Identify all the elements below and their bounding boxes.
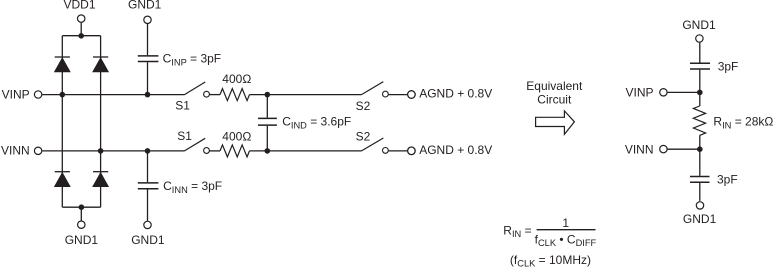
capacitor CINP — [138, 56, 159, 62]
wire RIN bottom to VINN node — [699, 135, 701, 149]
diode top-right (VINN to VDD1) — [93, 57, 108, 72]
svg-text:400Ω: 400Ω — [222, 130, 251, 144]
VDD1 label — [63, 0, 95, 12]
node VINN / CINN junction — [145, 148, 151, 154]
switch S1 (top) contact — [204, 91, 210, 97]
svg-text:S1: S1 — [177, 129, 192, 143]
node VDD1 bus junction — [78, 33, 84, 39]
wire cap to VINP node (right) — [699, 70, 701, 93]
wire VINP terminal to node (right) — [668, 91, 700, 93]
svg-text:VINP: VINP — [2, 88, 30, 102]
node VINP (right) — [697, 90, 703, 96]
svg-text:400Ω: 400Ω — [222, 72, 251, 86]
diode bottom-left (GND1 to VINP) — [55, 172, 70, 187]
svg-text:VINN: VINN — [1, 144, 30, 158]
wire top diode bus — [62, 35, 100, 37]
wire CINP to VINP rail — [147, 62, 149, 94]
GND1 label (diode bridge) — [65, 233, 99, 247]
GND1 terminal (CINP branch) — [144, 16, 151, 23]
S2 label (bottom) — [356, 130, 371, 144]
GND1 terminal (right top) — [696, 35, 703, 42]
switch S2 (top) blade — [362, 82, 384, 95]
equivalent-circuit block arrow — [536, 111, 575, 134]
AGND + 0.8V label (top) — [419, 86, 492, 100]
GND1 label (right top) — [682, 18, 716, 32]
svg-text:AGND + 0.8V: AGND + 0.8V — [419, 143, 492, 157]
resistor RIN — [693, 106, 705, 135]
svg-text:VDD1: VDD1 — [63, 0, 95, 12]
VINN terminal (right) — [660, 145, 667, 152]
svg-text:Equivalent: Equivalent — [526, 79, 583, 93]
diode top-left (VINP to VDD1) — [55, 57, 70, 72]
GND1 label (right bottom) — [683, 212, 717, 226]
node VINP / left diode branch — [60, 92, 66, 98]
wire bottom diode bus — [62, 206, 100, 208]
svg-text:(fCLK = 10MHz): (fCLK = 10MHz) — [510, 253, 591, 268]
wire CIND bottom — [266, 126, 268, 151]
RIN value label — [713, 115, 773, 131]
svg-text:S2: S2 — [356, 99, 371, 113]
VINP label (right) — [625, 86, 653, 100]
wire VDD1 stem — [80, 23, 82, 36]
wire CINN to GND1 — [147, 189, 149, 221]
wire VINN rail — [42, 150, 184, 152]
svg-text:S2: S2 — [356, 130, 371, 144]
VINP input label — [2, 88, 30, 102]
node GND1 bus junction — [79, 204, 85, 210]
svg-text:Circuit: Circuit — [537, 93, 572, 107]
wire VINN node to cap (right bottom) — [699, 149, 701, 176]
GND1 terminal (CINN branch) — [144, 221, 151, 228]
svg-text:3pF: 3pF — [718, 60, 739, 74]
Equivalent Circuit label — [526, 79, 583, 107]
VINP terminal (right) — [660, 89, 667, 96]
svg-text:GND1: GND1 — [65, 233, 99, 247]
GND1 terminal (diode bridge) — [78, 221, 85, 228]
CINN value label — [163, 179, 222, 195]
svg-text:CINN = 3pF: CINN = 3pF — [163, 179, 222, 195]
svg-text:1: 1 — [562, 216, 569, 230]
GND1 terminal (right bottom) — [696, 202, 703, 209]
GND1 label (CINN branch) — [131, 233, 165, 247]
CIND value label — [282, 115, 351, 131]
svg-text:GND1: GND1 — [683, 212, 717, 226]
VINN input terminal — [34, 147, 41, 154]
svg-text:S1: S1 — [175, 99, 190, 113]
VINP input terminal — [34, 91, 41, 98]
400ohm label (bottom) — [222, 130, 251, 144]
node CIND bottom junction — [265, 148, 271, 154]
switch S1 (top) blade — [185, 82, 206, 95]
svg-text:AGND + 0.8V: AGND + 0.8V — [419, 86, 492, 100]
switch S1 (bottom) contact — [204, 148, 210, 154]
svg-text:VINN: VINN — [625, 142, 654, 156]
node VINN / right diode branch — [98, 148, 104, 154]
wire R to S2 (bottom) — [250, 150, 362, 152]
S1 label (top) — [175, 99, 190, 113]
GND1 label (CINP branch) — [128, 0, 162, 12]
wire GND1 to cap (right top) — [699, 43, 701, 63]
resistor 400ohm (top) — [220, 89, 250, 101]
capacitor 3pF (right top) — [690, 63, 710, 69]
wire S1 to R (bottom) — [209, 150, 220, 152]
VINN label (right) — [625, 142, 654, 156]
svg-text:GND1: GND1 — [131, 233, 165, 247]
node VINP / CINP junction — [145, 92, 151, 98]
capacitor 3pF (right bottom) — [690, 177, 710, 183]
VINN input label — [1, 144, 30, 158]
resistor 400ohm (bottom) — [220, 145, 250, 157]
wire VINN terminal to node (right) — [668, 148, 700, 150]
wire CIND top — [266, 95, 268, 118]
formula RIN = 1/(fCLK * CDIFF) — [503, 216, 596, 248]
wire left diode branch — [61, 36, 63, 208]
svg-text:3pF: 3pF — [717, 172, 738, 186]
wire S1 to R (top) — [209, 94, 220, 96]
formula fCLK = 10MHz — [510, 253, 591, 268]
wire cap to GND1 (right bottom) — [699, 183, 701, 201]
wire S2 to AGND terminal (top) — [388, 94, 407, 96]
svg-text:GND1: GND1 — [128, 0, 162, 12]
wire GND1 stem — [80, 207, 82, 221]
wire S2 to AGND terminal (bottom) — [388, 150, 407, 152]
diode bottom-right (GND1 to VINN) — [93, 172, 108, 187]
node CIND top junction — [265, 92, 271, 98]
S1 label (bottom) — [177, 129, 192, 143]
wire VINN rail to CINN — [147, 151, 149, 182]
VDD1 terminal — [78, 15, 85, 22]
svg-text:fCLK • CDIFF: fCLK • CDIFF — [535, 233, 597, 248]
AGND terminal (bottom) — [408, 147, 416, 155]
400ohm label (top) — [222, 72, 251, 86]
S2 label (top) — [356, 99, 371, 113]
3pF label (right top) — [718, 60, 739, 74]
wire VINP rail — [42, 94, 184, 96]
switch S2 (top) contact — [383, 91, 389, 97]
wire GND1 to CINP — [147, 24, 149, 55]
capacitor CIND — [258, 118, 277, 125]
svg-text:CINP = 3pF: CINP = 3pF — [163, 52, 222, 68]
switch S1 (bottom) blade — [185, 138, 206, 151]
switch S2 (bottom) blade — [362, 138, 384, 151]
CINP value label — [163, 52, 222, 68]
node VINN (right) — [697, 146, 703, 152]
wire R to S2 (top) — [250, 94, 362, 96]
switch S2 (bottom) contact — [383, 148, 389, 154]
AGND terminal (top) — [408, 91, 416, 99]
svg-text:GND1: GND1 — [682, 18, 716, 32]
svg-text:VINP: VINP — [625, 86, 653, 100]
capacitor CINN — [138, 183, 159, 189]
wire node to RIN top — [699, 92, 701, 106]
3pF label (right bottom) — [717, 172, 738, 186]
svg-text:CIND = 3.6pF: CIND = 3.6pF — [282, 115, 351, 131]
AGND + 0.8V label (bottom) — [419, 143, 492, 157]
svg-text:RIN = 28kΩ: RIN = 28kΩ — [713, 115, 773, 131]
svg-text:RIN =: RIN = — [503, 223, 531, 238]
wire right diode branch — [100, 36, 102, 208]
